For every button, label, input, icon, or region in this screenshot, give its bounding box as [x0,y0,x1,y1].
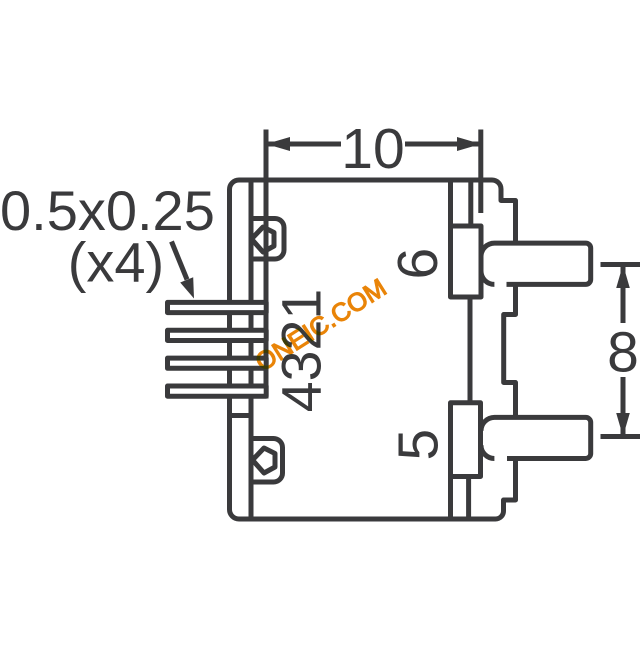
line between pads [468,297,473,403]
svg-text:5: 5 [387,429,451,461]
pin lead 3 [168,358,267,368]
mounting pad bottom [251,439,283,483]
arrowhead dim8 bottom [616,413,630,437]
arrowhead dim10 right [457,137,481,151]
pin lead 2 [168,330,267,340]
extension line left (x=266) [264,130,269,399]
leader arrow line (x4) [172,242,188,280]
dimension ticks 8 [601,265,640,437]
verticals below terminal pad 5 [451,477,469,520]
svg-text:10: 10 [341,117,404,181]
terminal pad 6 [451,226,482,297]
dimension line 8 [621,265,626,437]
lead 5 [481,417,591,458]
body outline [230,180,516,519]
leader arrowhead [180,277,194,298]
arrowhead dim10 left [266,137,290,151]
lead 6 [481,243,591,284]
hex hole bottom [253,448,276,473]
svg-text:(x4): (x4) [68,231,164,294]
body right edge notch between leads [504,285,516,418]
hex hole top [252,227,275,252]
body left connector [230,413,252,418]
mounting pad top [251,219,284,260]
dimension line 10 [269,142,479,147]
arrowhead dim8 top [616,265,630,289]
body inner left line [249,180,254,519]
terminal pad 5 [451,403,481,477]
svg-text:8: 8 [607,321,639,385]
pin lead 1 [168,302,267,312]
pin lead 4 [168,386,267,396]
extension line right (x=481) [478,130,483,214]
svg-text:6: 6 [386,248,450,280]
verticals above terminal pad 6 [451,180,471,226]
